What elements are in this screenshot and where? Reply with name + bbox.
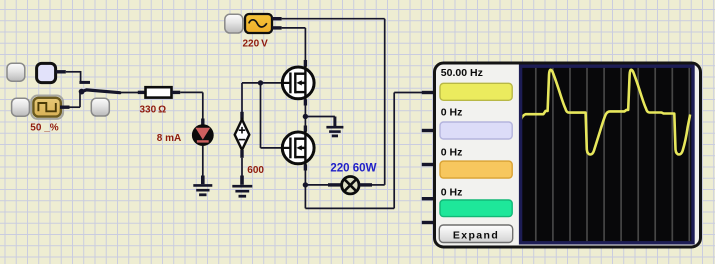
dependent source U1 wire to gate rail (vertical) — [241, 83, 243, 113]
wire AC bottom terminal to Q1 drain (vertical) — [304, 28, 306, 66]
svg-text:50.00 Hz: 50.00 Hz — [441, 67, 483, 79]
pulse source V1 square-wave glyph — [38, 103, 55, 111]
wire lamp node to scope (bottom horizontal) — [305, 207, 394, 209]
diode D1 top stub — [201, 119, 204, 126]
diode D1 body (LED, 8 mA) — [192, 124, 214, 146]
Q1 source stub — [304, 100, 307, 106]
junction node between Q1 and Q2 — [303, 114, 308, 119]
svg-text:330 Ω: 330 Ω — [140, 104, 167, 115]
Q2 drain stub — [304, 126, 307, 132]
lamp X1 left stub — [328, 183, 341, 186]
pulse source V1 body — [33, 98, 60, 117]
wire V1 to switch pivot (vertical) — [79, 92, 81, 108]
wire resistor to diode (vertical) — [202, 92, 204, 121]
scope display screen — [521, 66, 693, 243]
resistor R1 right stub — [172, 91, 181, 94]
dependent source U1 bottom stub — [240, 150, 243, 158]
wire resistor to diode (horizontal) — [180, 91, 203, 93]
wire riser to scope channel A — [394, 92, 423, 94]
scope input stub 2 — [422, 129, 434, 132]
wire gate rail (vertical) — [260, 83, 262, 148]
scope channel 1 colour swatch (yellow) — [440, 83, 512, 100]
wire node to lamp — [305, 184, 329, 186]
terminal stub of B1 — [56, 70, 66, 73]
AC source V2 bottom terminal stub — [272, 26, 282, 29]
scope input stub 5 — [422, 221, 434, 224]
wire lamp to AC top rail — [372, 184, 385, 186]
scope Expand button — [439, 225, 512, 243]
ground G1 (below diode) — [193, 176, 212, 195]
wire scope feed (vertical riser) — [393, 93, 395, 209]
wire B1 to switch contact (vertical) — [80, 71, 82, 82]
placeholder pad 3 — [91, 98, 109, 116]
wire AC top rail (vertical) — [384, 19, 386, 185]
wire V1 to switch pivot (horizontal) — [70, 106, 81, 108]
wire junction to ground G3 — [305, 116, 335, 118]
Q2 source stub — [304, 165, 307, 171]
ground G3 (mid rail) — [326, 117, 343, 136]
scope channel 3 colour swatch (orange) — [440, 161, 512, 178]
scope input stub 1 — [422, 91, 434, 94]
scope input stub 4 — [422, 197, 434, 200]
AC source V2 top terminal stub — [272, 17, 282, 20]
scope waveform trace (channel 1) — [521, 70, 691, 155]
resistor R1 body — [146, 87, 172, 97]
transistor Q1 (MOSFET) — [282, 66, 315, 100]
dependent source U1 body (diamond) — [235, 119, 250, 150]
dependent source U1 top stub — [240, 112, 243, 120]
wire AC top terminal to lamp right (horizontal) — [282, 18, 385, 20]
lamp node junction — [303, 182, 308, 187]
scope input stub 3 — [422, 163, 434, 166]
resistor R1 left stub — [138, 91, 146, 94]
switch SW1 open contact stub — [79, 81, 90, 84]
scope channel 2 colour swatch (lavender) — [440, 122, 512, 139]
wire switch to resistor — [120, 92, 139, 94]
svg-text:0 Hz: 0 Hz — [441, 147, 463, 159]
placeholder pad 1 — [7, 63, 25, 81]
lamp X1 body — [342, 177, 359, 194]
wire B1 to switch contact (horizontal) — [66, 71, 81, 73]
terminal stub of V1 — [60, 105, 70, 108]
oscilloscope panel — [435, 63, 701, 247]
Q1 drain stub — [304, 60, 307, 67]
svg-text:8 mA: 8 mA — [157, 133, 181, 144]
ground G2 (below dependent source) — [232, 176, 252, 197]
wire diode to ground — [202, 146, 204, 177]
switch SW1 lever arm — [81, 90, 120, 93]
AC source V2 sine glyph — [249, 20, 267, 27]
gate rail junction node — [258, 80, 263, 85]
svg-text:0 Hz: 0 Hz — [441, 187, 463, 199]
placeholder pad 4 — [225, 14, 243, 33]
wire Q1 source to Q2 drain — [304, 100, 306, 132]
wire AC bottom terminal to Q1 drain (horizontal) — [282, 27, 306, 29]
lamp X1 right stub — [360, 183, 372, 186]
placeholder pad 2 — [12, 98, 30, 116]
wire gate rail horizontal to Q1 — [242, 82, 282, 84]
wire gate rail to Q2 gate — [261, 147, 282, 149]
svg-text:0 Hz: 0 Hz — [441, 107, 463, 119]
svg-text:600: 600 — [247, 165, 264, 176]
pulse source V1 selection halo — [31, 96, 63, 119]
source block B1 — [37, 63, 56, 82]
svg-text:220 60W: 220 60W — [330, 163, 376, 175]
wire Q2 source down to lamp node — [304, 165, 306, 209]
switch SW1 pivot junction — [79, 89, 85, 95]
scope screen graticule — [536, 68, 690, 241]
svg-text:50 _%: 50 _% — [30, 122, 58, 133]
svg-text:220 V: 220 V — [243, 39, 269, 50]
svg-text:Expand: Expand — [453, 230, 499, 242]
AC source V2 body — [245, 14, 272, 33]
wire U1 to ground — [241, 158, 243, 177]
scope channel 4 colour swatch (green) — [440, 200, 512, 217]
transistor Q2 (MOSFET) — [282, 131, 315, 165]
